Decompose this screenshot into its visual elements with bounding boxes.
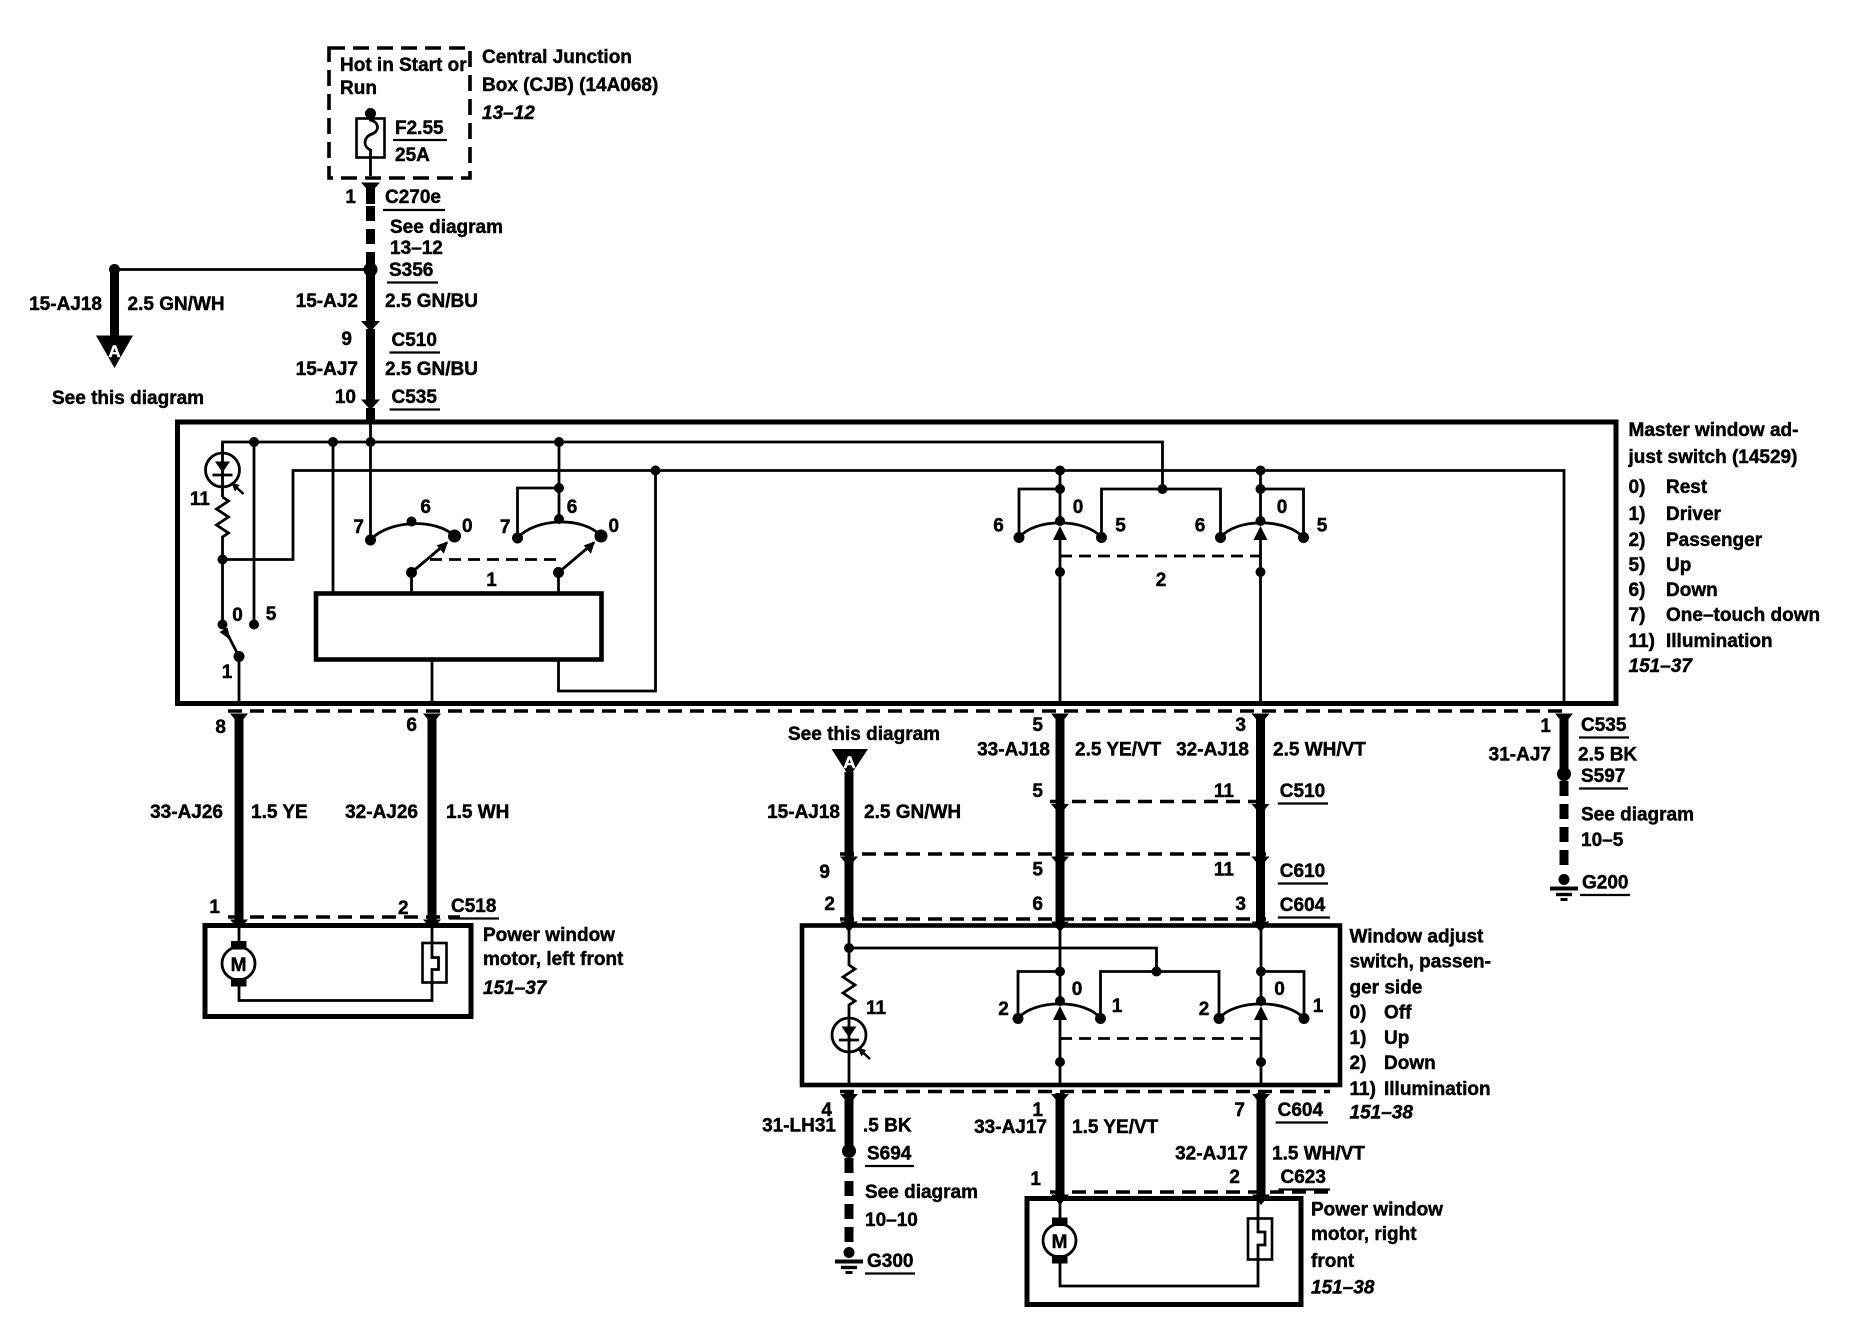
svg-text:G200: G200: [1582, 873, 1628, 894]
svg-text:11: 11: [866, 998, 887, 1019]
connector row C604 lower (dashed): [821, 1092, 1330, 1123]
svg-text:Box (CJB) (14A068): Box (CJB) (14A068): [482, 75, 658, 96]
rocker switch: passenger left 2/0/1: [998, 926, 1219, 1086]
node A (off-page arrow): [96, 336, 133, 369]
wire: internal supply rail (top): [223, 442, 1163, 489]
text: passenger switch legend: [1350, 927, 1492, 1124]
text: master switch legend: [1628, 420, 1821, 677]
svg-text:1): 1): [1629, 504, 1646, 525]
splice S597: [1557, 766, 1628, 789]
svg-text:C510: C510: [392, 330, 437, 351]
svg-text:See diagram: See diagram: [390, 217, 503, 238]
illumination lamp 11 (passenger): [832, 998, 887, 1059]
node: branch junction: [109, 264, 120, 275]
svg-text:2: 2: [1156, 570, 1167, 591]
ground G300: [835, 1247, 915, 1274]
svg-text:motor, left front: motor, left front: [483, 949, 624, 970]
svg-text:Hot in Start or: Hot in Start or: [340, 55, 467, 76]
connector C535 pin 10: [335, 387, 440, 421]
fuse F2.55 25A: [357, 108, 385, 176]
wire: S694 to G300 (dashed, see diagram 10-10): [849, 1158, 978, 1246]
svg-text:Down: Down: [1666, 580, 1718, 601]
svg-text:5: 5: [1032, 860, 1043, 881]
wire: S597 to G200 (dashed, see diagram 10-5): [1564, 781, 1694, 873]
resistor: illumination dropping (master): [217, 497, 229, 541]
wire: passenger feed rail: [844, 926, 1162, 977]
svg-text:Up: Up: [1666, 555, 1691, 576]
svg-text:151–38: 151–38: [1311, 1278, 1375, 1299]
svg-text:9: 9: [819, 862, 830, 883]
svg-text:3: 3: [1235, 894, 1246, 915]
rotary switch: driver window (first) 7/6/0: [353, 421, 472, 594]
svg-text:2.5 GN/WH: 2.5 GN/WH: [864, 802, 961, 823]
connector row C604 upper (dashed): [824, 894, 1330, 932]
rocker switch: passenger window left 6/0/5 (master): [993, 471, 1220, 704]
svg-text:0): 0): [1629, 477, 1646, 498]
svg-text:25A: 25A: [395, 145, 430, 166]
svg-text:0): 0): [1350, 1002, 1367, 1023]
connector C535 pin 8 arrow: [215, 714, 248, 739]
svg-text:C623: C623: [1281, 1167, 1326, 1188]
motor M (right front): [1043, 1199, 1258, 1287]
wire: resistor to contact 0: [218, 541, 228, 625]
svg-text:A: A: [108, 342, 120, 361]
svg-text:1: 1: [209, 897, 220, 918]
svg-text:See diagram: See diagram: [1581, 805, 1694, 826]
svg-text:1.5 YE/VT: 1.5 YE/VT: [1072, 1117, 1159, 1138]
svg-text:11): 11): [1629, 631, 1655, 652]
svg-text:G300: G300: [867, 1251, 913, 1272]
svg-text:2.5 BK: 2.5 BK: [1578, 745, 1637, 766]
ground G200: [1550, 873, 1630, 900]
svg-text:2): 2): [1629, 530, 1646, 551]
wire: internal return rail: [223, 471, 1565, 704]
svg-text:See diagram: See diagram: [865, 1182, 978, 1203]
svg-text:Master window ad-: Master window ad-: [1629, 420, 1799, 441]
svg-text:151–38: 151–38: [1350, 1102, 1414, 1123]
svg-text:1: 1: [486, 570, 497, 591]
svg-text:M: M: [231, 955, 247, 976]
label F2.55 25A: [393, 118, 447, 166]
window adjust switch passenger side box: [802, 926, 1340, 1086]
splice S356: [364, 260, 439, 283]
svg-text:6): 6): [1629, 580, 1646, 601]
svg-text:2.5 YE/VT: 2.5 YE/VT: [1075, 740, 1162, 761]
rotary switch: driver window (second) 7/6/0: [500, 442, 619, 594]
wire 33-AJ26 1.5 YE: [150, 714, 308, 926]
svg-text:S694: S694: [867, 1144, 912, 1165]
svg-text:2: 2: [824, 894, 835, 915]
svg-text:9: 9: [341, 329, 352, 350]
svg-text:11: 11: [1214, 781, 1235, 802]
svg-text:switch, passen-: switch, passen-: [1350, 952, 1492, 973]
svg-text:Power window: Power window: [1311, 1200, 1443, 1221]
svg-text:1.5 YE: 1.5 YE: [251, 802, 308, 823]
splice S694: [842, 1144, 914, 1167]
text: Hot in Start or Run: [340, 55, 467, 99]
svg-text:C518: C518: [451, 896, 496, 917]
svg-text:7: 7: [500, 517, 511, 538]
wire: fuse output dashed (see diagram 13-12): [371, 206, 504, 270]
svg-text:5: 5: [1317, 516, 1328, 537]
svg-text:33-AJ17: 33-AJ17: [974, 1117, 1047, 1138]
svg-text:32-AJ26: 32-AJ26: [345, 802, 418, 823]
master window adjust switch (14529) box: [178, 422, 1617, 704]
svg-text:2.5 GN/WH: 2.5 GN/WH: [128, 294, 225, 315]
svg-text:2.5 GN/BU: 2.5 GN/BU: [385, 359, 478, 380]
svg-text:Passenger: Passenger: [1666, 530, 1763, 551]
dashed link 1 (one-touch mechanical link): [430, 560, 556, 592]
svg-text:15-AJ7: 15-AJ7: [296, 359, 358, 380]
svg-text:1: 1: [1112, 996, 1123, 1017]
resistor: illumination dropping (passenger): [843, 965, 855, 1018]
connector row C510 (dashed): [1032, 781, 1328, 815]
text: See this diagram (middle): [788, 724, 940, 745]
svg-text:1: 1: [345, 187, 356, 208]
svg-text:5: 5: [1032, 715, 1043, 736]
connector C535 pin 1 arrow: [1540, 714, 1629, 738]
wire 15-AJ18 2.5 GN/WH (to off-page A): [29, 270, 225, 337]
wire 33-AJ17 1.5 YE/VT: [974, 1093, 1159, 1199]
svg-text:13–12: 13–12: [482, 103, 535, 124]
svg-text:7: 7: [353, 517, 364, 538]
svg-text:33-AJ26: 33-AJ26: [150, 802, 223, 823]
svg-text:151–37: 151–37: [1629, 656, 1694, 677]
svg-text:13–12: 13–12: [390, 238, 443, 259]
svg-text:2: 2: [998, 999, 1009, 1020]
svg-text:Off: Off: [1384, 1002, 1412, 1023]
connector row C610 (dashed): [819, 854, 1328, 884]
svg-text:8: 8: [215, 717, 226, 738]
rocker switch: passenger right 2/0/1: [1199, 926, 1324, 1086]
power window motor left front box: [205, 926, 471, 1017]
svg-text:C604: C604: [1280, 895, 1326, 916]
svg-text:0: 0: [232, 605, 243, 626]
Central Junction Box (CJB) dashed enclosure: [329, 48, 470, 178]
svg-text:0: 0: [1277, 497, 1288, 518]
svg-text:6: 6: [1195, 516, 1206, 537]
svg-text:S356: S356: [389, 260, 433, 281]
svg-text:6: 6: [993, 516, 1004, 537]
wire 32-AJ17 1.5 WH/VT: [1175, 1093, 1365, 1199]
svg-text:1: 1: [1030, 1169, 1041, 1190]
svg-text:6: 6: [1032, 894, 1043, 915]
connector C510 pin 9: [341, 321, 440, 353]
svg-text:0: 0: [1072, 979, 1083, 1000]
svg-text:15-AJ18: 15-AJ18: [767, 802, 840, 823]
svg-text:motor, right: motor, right: [1311, 1224, 1417, 1245]
svg-text:Power window: Power window: [483, 925, 615, 946]
svg-text:5: 5: [1032, 781, 1043, 802]
svg-text:5: 5: [266, 604, 277, 625]
svg-text:31-LH31: 31-LH31: [762, 1116, 836, 1137]
svg-text:2: 2: [1199, 999, 1210, 1020]
wire 33-AJ18 2.5 YE/VT: [977, 714, 1162, 926]
svg-text:2.5 GN/BU: 2.5 GN/BU: [385, 291, 478, 312]
svg-text:See this diagram: See this diagram: [52, 388, 204, 409]
wire: contact 5 drop: [249, 442, 259, 630]
wire 15-AJ7 2.5 GN/BU: [296, 329, 478, 400]
svg-text:6: 6: [420, 497, 431, 518]
svg-text:1): 1): [1350, 1028, 1367, 1049]
switch: driver selector 0/5 pivot 1: [218, 604, 277, 703]
svg-text:just switch (14529): just switch (14529): [1628, 447, 1798, 468]
one-touch down module box: [316, 594, 602, 660]
svg-text:31-AJ7: 31-AJ7: [1489, 745, 1551, 766]
svg-text:6: 6: [406, 715, 417, 736]
svg-text:Illumination: Illumination: [1666, 631, 1773, 652]
wire 31-LH31 .5 BK: [762, 1093, 912, 1151]
node A (incoming off-page arrow, middle): [832, 749, 869, 777]
svg-text:10: 10: [335, 387, 356, 408]
svg-text:0: 0: [1073, 497, 1084, 518]
svg-text:M: M: [1052, 1232, 1068, 1253]
wire: S356 to branch A: [115, 268, 371, 271]
wire: module output to pin 6: [431, 660, 434, 704]
rocker switch: passenger window right 6/0/5 (master): [1195, 471, 1328, 704]
connector C535 pin 3 arrow: [1235, 714, 1269, 737]
svg-text:0: 0: [609, 516, 620, 537]
circuit breaker (right motor): [1248, 1199, 1272, 1260]
svg-text:Central Junction: Central Junction: [482, 47, 632, 68]
svg-text:F2.55: F2.55: [395, 118, 444, 139]
svg-text:One–touch down: One–touch down: [1666, 605, 1820, 626]
svg-text:11: 11: [190, 489, 211, 510]
connector C270e pin 1 (arrow): [345, 183, 445, 211]
svg-text:15-AJ18: 15-AJ18: [29, 294, 102, 315]
svg-text:7): 7): [1629, 605, 1646, 626]
svg-text:C610: C610: [1280, 861, 1325, 882]
svg-text:A: A: [843, 753, 855, 772]
svg-text:Rest: Rest: [1666, 477, 1708, 498]
svg-text:33-AJ18: 33-AJ18: [977, 740, 1050, 761]
motor M (left front): [222, 926, 432, 1001]
svg-text:32-AJ17: 32-AJ17: [1175, 1144, 1248, 1165]
illumination lamp 11 (master): [190, 442, 244, 510]
svg-text:C604: C604: [1278, 1100, 1324, 1121]
connector row C535 (dashed): [228, 709, 1566, 712]
circuit breaker (left motor): [423, 926, 447, 983]
svg-text:10–5: 10–5: [1581, 830, 1624, 851]
svg-text:10–10: 10–10: [865, 1210, 918, 1231]
svg-text:1: 1: [222, 662, 233, 683]
wire: module loop to return rail: [559, 471, 656, 692]
svg-text:2.5 WH/VT: 2.5 WH/VT: [1273, 740, 1366, 761]
svg-text:Up: Up: [1384, 1028, 1409, 1049]
svg-text:32-AJ18: 32-AJ18: [1176, 740, 1249, 761]
svg-text:See this diagram: See this diagram: [788, 724, 940, 745]
svg-text:C535: C535: [392, 387, 438, 408]
wire: feed drop to passenger rockers: [1158, 484, 1168, 494]
svg-text:2): 2): [1350, 1053, 1367, 1074]
svg-text:5): 5): [1629, 555, 1646, 576]
svg-text:2: 2: [398, 898, 409, 919]
svg-text:15-AJ2: 15-AJ2: [296, 291, 358, 312]
text: Central Junction Box (CJB) (14A068) 13-12: [482, 47, 658, 124]
svg-text:1.5 WH/VT: 1.5 WH/VT: [1272, 1144, 1365, 1165]
svg-text:1.5 WH: 1.5 WH: [446, 802, 509, 823]
dashed link 2 (passenger rocker link): [1060, 556, 1261, 591]
svg-text:3: 3: [1235, 715, 1246, 736]
svg-text:6: 6: [567, 497, 578, 518]
wire 15-AJ18 2.5 GN/WH (middle): [767, 772, 961, 926]
svg-text:Driver: Driver: [1666, 504, 1722, 525]
svg-text:front: front: [1311, 1251, 1355, 1272]
svg-text:S597: S597: [1581, 766, 1625, 787]
svg-text:11: 11: [1214, 860, 1235, 881]
wire 32-AJ26 1.5 WH: [345, 714, 509, 926]
power window motor right front box: [1027, 1199, 1301, 1305]
text: Power window motor, left front 151-37: [483, 925, 624, 999]
dashed link (passenger rockers): [1060, 1037, 1261, 1040]
node: rail1 junctions: [249, 437, 564, 447]
svg-text:7: 7: [1234, 1100, 1245, 1121]
svg-text:Window adjust: Window adjust: [1350, 927, 1485, 948]
connector row C623 (dashed): [1030, 1167, 1330, 1205]
text: See this diagram (left): [52, 388, 204, 409]
connector C535 pin 5 arrow: [1032, 714, 1069, 737]
svg-text:ger side: ger side: [1350, 977, 1423, 998]
connector C518 pin arrows: [230, 920, 441, 931]
svg-text:C535: C535: [1581, 715, 1627, 736]
svg-text:C270e: C270e: [385, 187, 441, 208]
connector row C518 (dashed): [209, 896, 499, 919]
wire: lamp to pin 4: [848, 1052, 851, 1085]
svg-text:151–37: 151–37: [483, 978, 548, 999]
svg-text:Run: Run: [340, 78, 377, 99]
wire 31-AJ7 2.5 BK: [1489, 714, 1638, 774]
svg-text:11): 11): [1350, 1079, 1376, 1100]
wire 15-AJ2 2.5 GN/BU: [296, 270, 478, 323]
svg-text:0: 0: [1274, 979, 1285, 1000]
node: rail2 junctions: [651, 466, 1266, 476]
wire: module feed from rail1: [332, 442, 335, 594]
svg-text:C510: C510: [1280, 781, 1325, 802]
svg-text:Illumination: Illumination: [1384, 1079, 1491, 1100]
svg-text:0: 0: [462, 516, 473, 537]
svg-text:1: 1: [1313, 996, 1324, 1017]
text: Power window motor, right front 151-38: [1311, 1200, 1443, 1299]
svg-text:.5 BK: .5 BK: [863, 1116, 912, 1137]
wire 32-AJ18 2.5 WH/VT: [1176, 714, 1366, 926]
svg-text:1: 1: [1540, 716, 1551, 737]
svg-text:2: 2: [1229, 1167, 1240, 1188]
svg-text:5: 5: [1115, 516, 1126, 537]
connector C535 pin 6 arrow: [406, 714, 441, 737]
svg-text:Down: Down: [1384, 1053, 1436, 1074]
